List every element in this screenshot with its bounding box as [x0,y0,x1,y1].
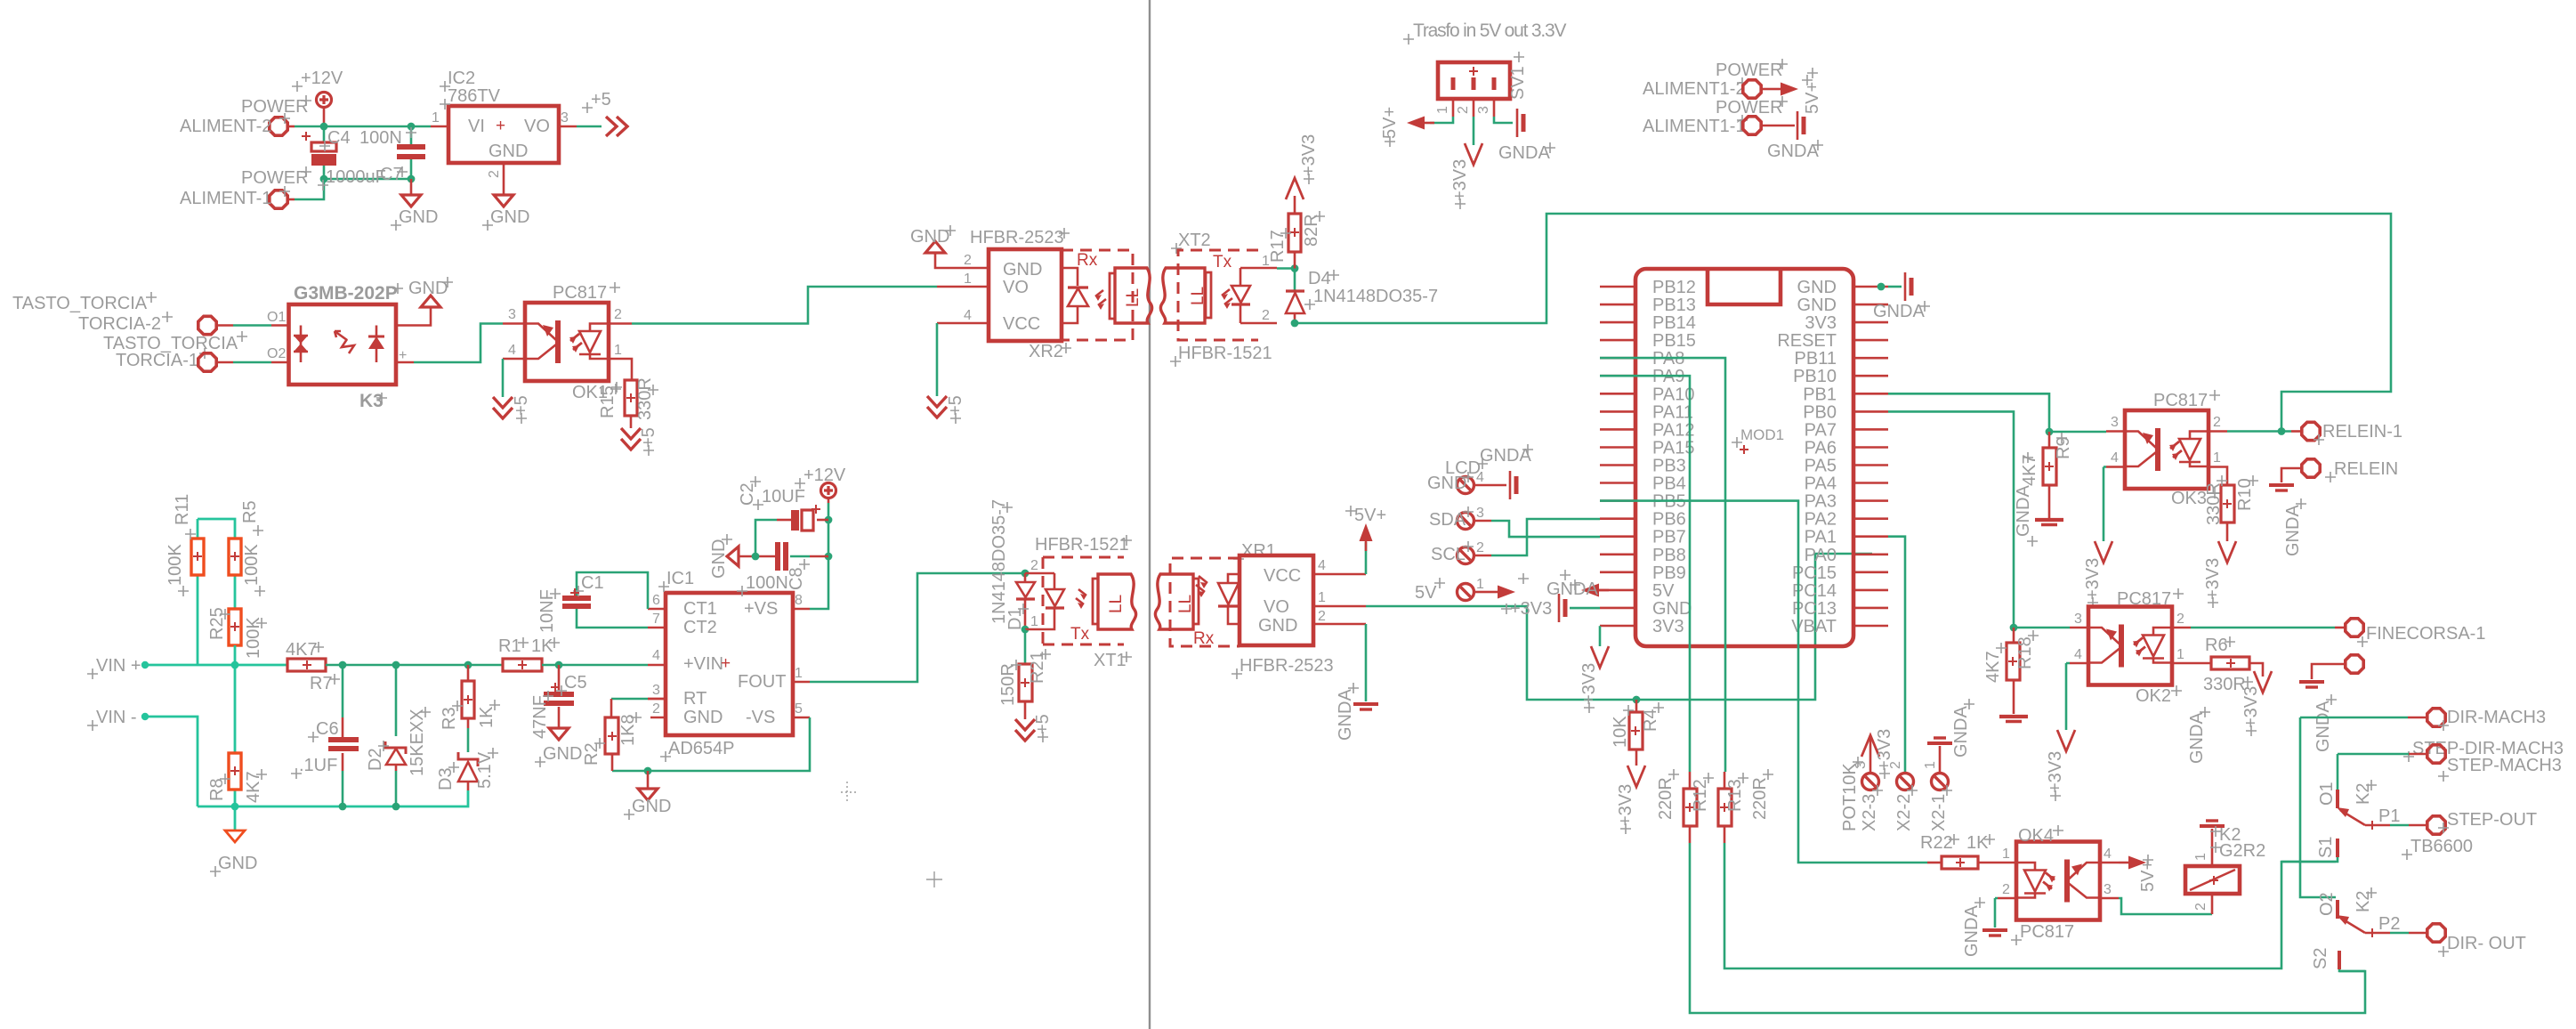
VIN+ wire end dot [141,661,149,668]
XR2 photodiode [1062,268,1088,323]
svg-text:R9: R9 [2054,436,2073,459]
wire R15 to +5 [630,416,633,428]
svg-text:2: 2 [652,701,660,717]
MOD1 pin PB15 [1600,339,1635,342]
MOD1 pin PA10 [1600,393,1635,395]
svg-text:PB0: PB0 [1803,402,1837,422]
MOD1 pin RESET [1853,339,1888,342]
svg-text:TASTO_TORCIA: TASTO_TORCIA [12,294,148,313]
svg-text:X2-2: X2-2 [1894,794,1914,831]
svg-text:4: 4 [1476,470,1484,485]
+3V3 arrow down (R10) [2218,541,2236,563]
svg-text:G3MB-202P: G3MB-202P [294,283,398,304]
IC1 pin3 [648,698,666,701]
wire PA8 through module to R13 [1600,358,1725,772]
svg-text:+3V3: +3V3 [1579,663,1599,705]
svg-text:R21: R21 [1028,651,1047,684]
MOD1 pin PB8 [1600,553,1635,555]
svg-text:GNDA: GNDA [2014,485,2033,537]
resistor R8 4K7 [234,665,237,806]
svg-text:POWER: POWER [1716,98,1783,117]
XT2 LED [1231,268,1250,323]
pad LCD 3 SDA [1458,513,1474,530]
svg-text:1: 1 [1318,590,1326,605]
svg-text:5V: 5V [1415,583,1437,603]
svg-text:220R: 220R [1750,777,1770,820]
svg-text:5V: 5V [1652,581,1675,601]
VIN- wire end dot [141,713,149,720]
svg-text:GND: GND [489,142,528,161]
svg-text:LL: LL [1124,288,1143,307]
wire VIN- [145,717,198,806]
svg-text:+5: +5 [1033,714,1053,734]
bottom rail [198,790,468,806]
svg-text:R11: R11 [173,494,192,525]
pad FINECORSA-2 + GNDA [2346,655,2363,673]
OK2 pin2 [2172,627,2191,629]
XT1 pin2 [1025,572,1043,575]
wire PB1 to OK3 [1888,393,2049,432]
pad DIR-MACH3 [2427,709,2445,726]
MOD1 pin PB3 [1600,464,1635,466]
wire OK3 pin2 to RELEIN-1 [2227,430,2291,433]
svg-text:X2-1: X2-1 [1929,794,1949,831]
svg-text:+VIN: +VIN [683,654,723,674]
G3MB-202P relay K3 [289,304,397,385]
svg-text:+5: +5 [946,395,965,416]
XR2 dashed box [1062,250,1133,340]
svg-text:R18: R18 [2015,636,2035,669]
svg-text:XT1: XT1 [1094,651,1126,670]
svg-text:XT2: XT2 [1178,231,1211,250]
svg-text:150R: 150R [998,663,1018,706]
svg-text:47NF: 47NF [530,695,550,739]
svg-text:4: 4 [2111,450,2119,466]
svg-text:C4: C4 [327,128,351,148]
XR1 pin1 VO [1313,605,1366,608]
wire OK4 pin2 to GNDA [1995,898,1998,928]
IC1 pin8 [793,608,810,611]
junction PB0/R18 [2010,624,2018,632]
svg-text:2: 2 [1318,609,1326,624]
svg-text:-VS: -VS [746,708,775,727]
pad LCD 1 5V [1458,584,1474,601]
svg-text:STEP-OUT: STEP-OUT [2447,810,2537,830]
MOD1 pin GND [1853,304,1888,306]
wire ALIMENT-1 [287,199,295,201]
+12V supply (IC1) [821,483,836,504]
svg-text:ALIMENT1-1: ALIMENT1-1 [1643,117,1746,136]
wire R12 to S2 [1690,843,2365,1013]
wire bottom rail [324,126,411,179]
svg-text:P1: P1 [2378,806,2400,826]
svg-text:K2: K2 [2354,783,2373,805]
MOD1 pin PB10 [1853,375,1888,377]
svg-text:GND: GND [709,539,729,579]
MOD1 pin PB4 [1600,482,1635,484]
svg-text:RELEIN-1: RELEIN-1 [2322,422,2402,442]
svg-text:XR2: XR2 [1029,342,1063,361]
svg-text:VIN -: VIN - [96,708,137,727]
resistor R15 330R [625,380,637,416]
resistor R5 100K [198,519,235,609]
5V+ arrow left (SV1) [1407,117,1434,130]
switch K2 upper: O1/P1/S1 [2336,790,2339,808]
MOD1 pin PA5 [1853,464,1888,466]
capacitor C1 10NF [577,572,648,609]
capacitor C7 1000uF (polarized) [302,132,336,166]
svg-text:82R: 82R [1302,214,1321,247]
OK3 pin1 [2209,467,2227,486]
svg-text:RELEIN: RELEIN [2334,459,2398,479]
svg-text:STEP-MACH3: STEP-MACH3 [2447,756,2562,775]
svg-text:R8: R8 [207,778,227,801]
capacitor C2 10UF [825,516,833,524]
G3MB internals: output diode [368,326,384,363]
GNDA symbol (SV1) [1517,109,1523,137]
svg-text:GND: GND [632,797,671,816]
svg-text:2: 2 [1456,106,1471,114]
svg-text:RESET: RESET [1777,331,1837,351]
GND under C4 [410,179,413,195]
OK2 pin1 [2172,662,2191,665]
pad X2-1 + GNDA [1932,774,1949,790]
svg-text:1: 1 [795,666,803,681]
svg-text:C2: C2 [738,482,757,506]
svg-text:GNDA: GNDA [1873,302,1925,321]
IC1 pin5 [793,717,810,719]
diode D4 1N4148DO35-7 [1294,269,1296,291]
svg-text:SDA: SDA [1429,510,1466,530]
OK2 pin4 [2070,662,2088,665]
svg-text:GNDA: GNDA [1336,689,1355,741]
svg-text:K3: K3 [359,391,384,411]
OK1 pin4 [503,358,525,361]
wire PA9 through module to R12 [1600,376,1690,772]
svg-text:PA10: PA10 [1652,385,1694,404]
GND arrow left (C8) [727,547,739,566]
OK3 PC817 [2125,410,2209,489]
svg-text:Rx: Rx [1077,251,1098,270]
wire +12V vertical [810,503,828,609]
svg-text:3: 3 [2111,415,2119,430]
svg-text:+5: +5 [591,90,611,109]
svg-text:Trasfo in 5V out 3.3V: Trasfo in 5V out 3.3V [1413,20,1566,41]
XT2 fiber connector [1160,268,1211,323]
svg-text:1: 1 [614,343,622,358]
wire PB0 to R18/OK2 [1888,411,2014,628]
IC1 pin7 [648,627,666,629]
svg-text:GND: GND [543,744,582,764]
XR2 pin1 [937,286,989,288]
IC2 pin3 [559,126,577,128]
XR1 dashed box [1170,558,1240,646]
MOD1 pin GND [1853,286,1888,288]
switch K2 lower: O2/P2/S2 [2336,900,2339,919]
MOD1 pin PA7 [1853,428,1888,431]
MOD1 pin PB11 [1853,357,1888,360]
junction C6 [339,661,347,669]
svg-text:GNDA: GNDA [2187,712,2207,764]
MOD1 pin VBAT [1853,625,1888,628]
svg-text:PC817: PC817 [2153,391,2208,410]
OK4 pin2 [1998,897,2016,900]
svg-text:POT10K: POT10K [1840,763,1860,831]
pad X2-2 [1904,772,1907,773]
XR2 pin2 + GND [935,253,989,268]
wire to +5 [577,126,602,128]
svg-text:MOD1: MOD1 [1740,426,1784,443]
svg-text:220R: 220R [1656,777,1676,820]
svg-text:X2-3: X2-3 [1860,794,1879,831]
svg-text:HFBR-2523: HFBR-2523 [1240,656,1334,676]
svg-text:3: 3 [2074,612,2082,627]
MOD1 pin PB13 [1600,304,1635,306]
OK3 pin4 [2106,466,2125,468]
XT2 pin1 [1240,267,1277,270]
svg-text:G2R2: G2R2 [2219,841,2265,861]
wire OK4 pin3 to K2 coil [2119,898,2212,914]
G3MB internals: opto zigzag arrow [335,331,354,353]
pad X2-3 [1862,774,1879,790]
svg-text:S1: S1 [2316,837,2336,858]
svg-text:5.1V: 5.1V [475,751,495,789]
resistor R12 220R [1689,772,1692,789]
svg-text:330R: 330R [2204,482,2224,525]
svg-text:PA2: PA2 [1805,510,1837,530]
svg-text:CT2: CT2 [683,618,717,637]
wire TORCIA-2 to G3MB O1 [215,324,233,327]
resistor R11 100K [197,519,199,665]
svg-text:+3V3: +3V3 [2241,686,2261,728]
svg-text:3: 3 [508,307,516,322]
svg-text:.1UF: .1UF [299,756,337,775]
svg-text:3: 3 [1476,506,1484,521]
svg-text:GND: GND [1003,260,1042,280]
svg-text:1N4148DO35-7: 1N4148DO35-7 [1313,287,1438,306]
svg-text:+: + [496,117,505,135]
wire OK2 pin4 to +3V3 [2066,663,2070,730]
svg-text:PA5: PA5 [1805,457,1837,476]
junction VIN+/R25 [231,661,239,669]
svg-text:C1: C1 [581,573,604,593]
OK1 pin2 [609,322,632,325]
svg-text:PA0: PA0 [1805,546,1837,565]
XT1 pin1 [1025,628,1043,631]
MOD1 pin PB0 [1853,410,1888,413]
svg-text:IC1: IC1 [666,569,694,588]
IC1 pin2 [650,717,666,719]
svg-text:R5: R5 [240,500,260,523]
svg-text:PB7: PB7 [1652,528,1686,547]
XT1 fiber connector [1093,574,1136,629]
svg-text:+12V: +12V [301,69,343,88]
svg-text:S2: S2 [2311,948,2330,969]
svg-text:IC2: IC2 [448,69,475,88]
svg-text:4K7: 4K7 [286,640,318,660]
pad FINECORSA-1 [2346,619,2363,636]
resistor R2 1K8 [611,698,648,701]
svg-text:2: 2 [614,307,622,322]
resistor R18 4K7 [2013,628,2015,643]
svg-text:1K: 1K [1966,833,1989,853]
svg-text:5V+: 5V+ [1803,82,1822,114]
svg-text:5V+: 5V+ [1354,506,1386,525]
svg-text:PB1: PB1 [1803,385,1837,404]
svg-text:D4: D4 [1308,269,1331,288]
resistor R17 82R [1294,263,1296,269]
pad STEP-MACH3 [2427,745,2445,763]
svg-text:5: 5 [795,701,803,717]
svg-text:FINECORSA-1: FINECORSA-1 [2366,624,2485,644]
resistor R1 1K [503,659,542,671]
svg-text:1K8: 1K8 [618,714,638,746]
svg-text:+VS: +VS [744,599,778,619]
svg-text:100K: 100K [166,544,185,586]
svg-text:PC817: PC817 [2020,922,2074,942]
3V3 pin +3V3 arrow down [1599,626,1602,646]
resistor R13 220R [1724,772,1726,789]
IC1 pin1 [793,681,810,684]
junction R3 [464,661,472,669]
resistor R25 100K [229,609,241,645]
svg-text:100K: 100K [242,544,262,586]
OK2 pin3 [2070,627,2088,629]
svg-text:3V3: 3V3 [1652,617,1684,636]
MOD1 pin PA0 [1853,553,1888,555]
diode D3 5.1V (zener) [458,752,478,790]
svg-text:3: 3 [652,683,660,698]
pad TORCIA-2 [198,316,216,334]
svg-text:15KEXX: 15KEXX [408,709,427,776]
wire PA1 to X2-2 [1888,537,1905,772]
MOD1 pin PC13 [1853,607,1888,610]
diode D2 15KEXX (zener) [395,665,398,736]
svg-text:VI: VI [468,117,485,136]
svg-text:R10: R10 [2235,478,2255,511]
XT2 dashed box [1178,250,1258,340]
wire R13 to S1 [1724,843,2336,968]
svg-text:PA15: PA15 [1652,439,1694,458]
GNDA symbol (XR1) [1353,704,1378,709]
svg-text:FOUT: FOUT [738,672,786,692]
svg-text:1: 1 [1435,106,1450,114]
+5 arrow down (OK1) [493,397,513,418]
XR1 pin2 GND [1313,623,1366,626]
svg-text:7: 7 [652,612,660,627]
MOD1 pin PA4 [1853,482,1888,484]
svg-text:4: 4 [1318,558,1326,573]
svg-text:TB6600: TB6600 [2410,837,2473,856]
GND pin GNDA bars [1570,607,1600,610]
svg-text:6: 6 [652,593,660,608]
svg-text:2: 2 [2213,415,2221,430]
svg-text:LL: LL [1189,287,1207,305]
svg-text:+5: +5 [512,395,531,416]
svg-text:TORCIA-1: TORCIA-1 [116,351,198,370]
svg-text:GND: GND [910,227,949,247]
svg-text:+3V3: +3V3 [1616,784,1635,826]
svg-text:AD654P: AD654P [668,739,735,758]
svg-text:HFBR-1521: HFBR-1521 [1035,535,1129,555]
XT1 LED [1043,573,1064,629]
svg-text:GNDA: GNDA [1498,143,1550,163]
svg-text:LL: LL [1176,595,1195,613]
pad LCD 4 GND [1458,477,1474,494]
svg-text:R2: R2 [582,742,602,766]
MOD1 pin 5V [1600,589,1635,592]
5V pin arrow left [1591,589,1600,592]
junction [320,123,328,131]
svg-text:RT: RT [683,689,707,709]
svg-text:5V+: 5V+ [1380,107,1400,139]
+3V3 arrow up (R17) [1286,178,1304,199]
wire OK1 pin4 to +5 [502,359,505,397]
svg-text:+3V3: +3V3 [2203,558,2223,600]
svg-text:1: 1 [432,110,440,126]
IC2 regulator 786TV [448,106,559,163]
svg-text:O2: O2 [2317,892,2337,916]
+5 arrow right [606,117,627,136]
pad LCD 2 SCL [1458,547,1474,564]
MOD1 pin PA8 [1600,357,1635,360]
XR2 light arrows [1095,290,1106,305]
svg-text:PB9: PB9 [1652,563,1686,583]
svg-text:+: + [721,654,731,673]
svg-text:C5: C5 [564,673,587,693]
svg-text:POWER: POWER [241,97,309,117]
OK3 pin3 [2106,430,2125,433]
svg-text:VCC: VCC [1264,566,1301,586]
XR2 pin4 [937,322,989,325]
resistor R3 1K [467,665,470,681]
wire FOUT to XT1 [810,573,1025,682]
svg-text:VO: VO [524,117,550,136]
svg-text:LL: LL [1107,595,1126,613]
svg-text:GND: GND [408,279,448,298]
svg-text:R13: R13 [1725,779,1745,812]
capacitor C5 47NF [558,665,561,691]
svg-text:+: + [399,348,407,363]
MOD1 pin PC15 [1853,571,1888,573]
pad ALIMENT1-1 [1743,117,1761,134]
svg-text:GNDA: GNDA [1951,706,1971,758]
GNDA symbol (ALIMENT1-1) [1797,111,1804,140]
resistor R21 150R [1024,629,1027,664]
svg-text:R6: R6 [2205,636,2228,655]
wire OK3 pin4 to +3V3 [2104,467,2106,542]
svg-text:PA1: PA1 [1805,528,1837,547]
svg-text:P2: P2 [2378,914,2400,934]
IC1 pin6 [648,608,666,611]
svg-text:GNDA: GNDA [1767,142,1819,161]
GNDA at module GND pin [1888,286,1902,288]
svg-text:Tx: Tx [1213,253,1232,271]
svg-text:10UF: 10UF [762,487,805,506]
svg-text:1K: 1K [531,636,553,656]
svg-text:OK4: OK4 [2018,826,2054,846]
svg-text:1000uF: 1000uF [326,167,386,187]
svg-text:ALIMENT-2: ALIMENT-2 [180,117,271,136]
svg-text:+3V3: +3V3 [2046,751,2065,793]
svg-text:HFBR-1521: HFBR-1521 [1178,344,1272,363]
svg-text:1: 1 [2176,647,2184,662]
svg-text:PA7: PA7 [1805,420,1837,440]
resistor R6 330R [2191,662,2211,665]
IC2 pin1 [431,126,448,128]
MOD1 pin 3V3 [1853,321,1888,324]
svg-text:2: 2 [2176,612,2184,627]
